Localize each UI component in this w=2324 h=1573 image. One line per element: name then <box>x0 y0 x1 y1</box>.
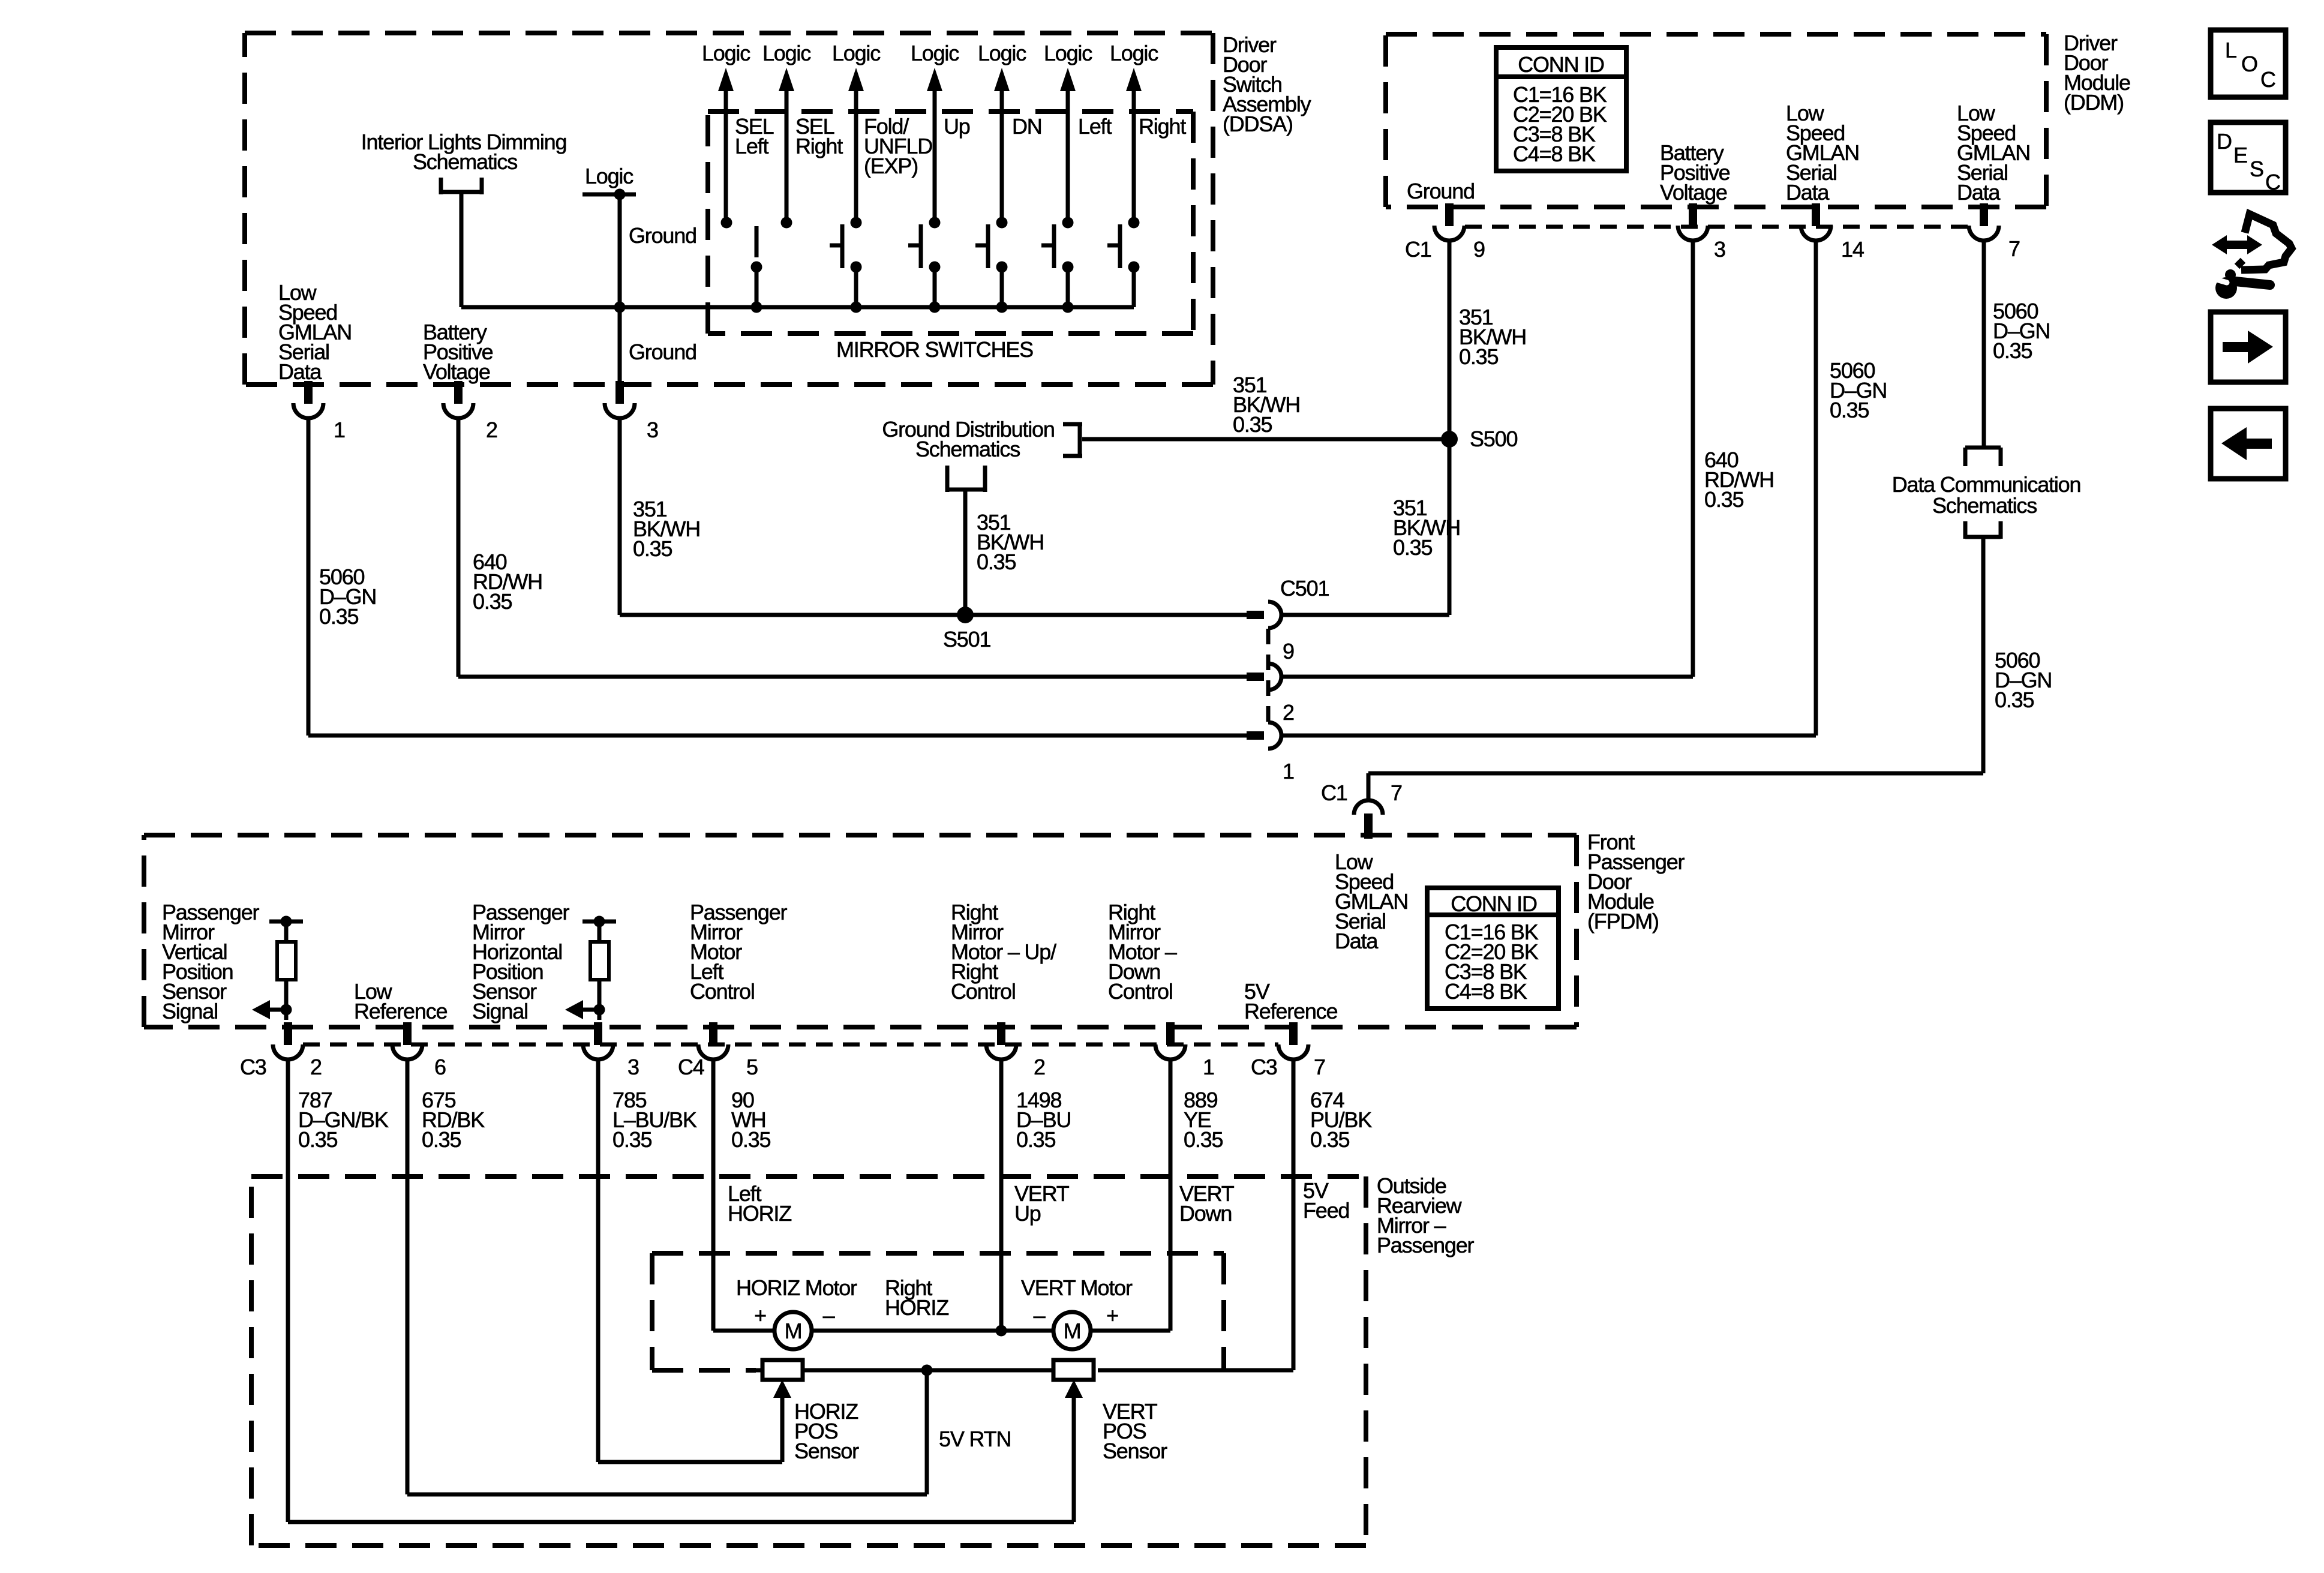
svg-text:Up: Up <box>944 114 970 139</box>
svg-text:6: 6 <box>434 1055 446 1079</box>
connector FPDM pin C4-1 <box>1155 1022 1185 1059</box>
ground bus wire inside mirror switch box <box>620 305 1134 310</box>
pin number 2 (FPDM) <box>310 1055 322 1079</box>
label: 5V Reference <box>1244 979 1337 1023</box>
module box: Driver Door Module (DDM) <box>1386 34 2046 207</box>
label: Fold/UNFLD (EXP) <box>864 114 932 178</box>
wire: 5060 D-GN from DDSA pin 1 to C501 pin 1 <box>308 417 1247 736</box>
svg-text:(DDSA): (DDSA) <box>1223 112 1293 136</box>
svg-text:14: 14 <box>1841 237 1864 262</box>
wire: position sensor chain <box>752 1368 1058 1373</box>
label: Front Passenger Door Module (FPDM) <box>1587 830 1685 933</box>
wire: DDM pin 7 to data communication bracket <box>1982 239 1986 448</box>
label: Logic 2 <box>762 41 811 65</box>
wire: C501 pin 2 to DDM pin 3 <box>1281 239 1693 677</box>
wire label: 5060 D-GN 0.35 (left) <box>319 565 376 629</box>
svg-text:0.35: 0.35 <box>298 1127 337 1152</box>
wire: C501 pin 9 to S500 riser to DDM pin 9 <box>1281 239 1449 615</box>
connector DDM C1 pin 7 <box>1969 203 1999 241</box>
icon: LOC box <box>2211 30 2286 97</box>
label: Ground Distribution Schematics <box>882 417 1054 461</box>
bus junction dots <box>751 302 1074 313</box>
svg-text:CONN ID: CONN ID <box>1518 52 1604 77</box>
svg-text:Logic: Logic <box>702 41 750 65</box>
wire: horizontal position signal return <box>598 1059 782 1462</box>
wire label: 5060 D-GN 0.35 (DDM pin 7) <box>1993 299 2050 363</box>
wire label: 351 BK/WH 0.35 (DDM pin 9) <box>1459 305 1526 369</box>
svg-text:Right: Right <box>795 134 843 158</box>
svg-text:S500: S500 <box>1470 427 1517 451</box>
wire: vertical position signal return <box>288 1059 1074 1522</box>
bracket: Ground Distribution Schematics (right) <box>1063 422 1082 458</box>
label: Data Communication Schematics <box>1892 472 2081 518</box>
wire: VERT Down control <box>1091 1059 1170 1331</box>
wire: ground vertical inside DDSA <box>618 194 622 385</box>
connector FPDM C1 pin 7 (top) <box>1354 800 1383 839</box>
label: MIRROR SWITCHES <box>836 337 1033 362</box>
wire label: 889 YE 0.35 <box>1184 1088 1223 1152</box>
node: junction vert up at motor bus <box>996 1325 1007 1337</box>
label: HORIZ Motor <box>736 1275 857 1300</box>
svg-text:Schematics: Schematics <box>413 149 517 174</box>
label: Right HORIZ <box>885 1275 948 1320</box>
svg-text:S: S <box>2250 157 2263 181</box>
wire label: 674 PU/BK 0.35 <box>1310 1088 1372 1152</box>
label: Outside Rearview Mirror - Passenger <box>1377 1173 1475 1257</box>
pin number 14 (DDM) <box>1841 237 1864 262</box>
svg-text:–: – <box>1034 1303 1046 1328</box>
label: Logic 4 <box>911 41 959 65</box>
label: Interior Lights Dimming Schematics <box>361 130 567 174</box>
label: VERT Up <box>1014 1181 1070 1226</box>
pin number 2 (C501) <box>1283 700 1294 725</box>
label: Passenger Mirror Vertical Position Sensor Signal <box>162 900 260 1023</box>
svg-text:Down: Down <box>1179 1201 1232 1226</box>
label: Ground (lower) <box>629 340 696 364</box>
connector C501 pin 9 <box>1247 602 1281 628</box>
svg-text:Control: Control <box>1108 979 1173 1004</box>
svg-text:0.35: 0.35 <box>422 1127 461 1152</box>
svg-text:M: M <box>785 1319 802 1343</box>
module box: MIRROR SWITCHES (dashed) <box>708 112 1193 334</box>
svg-text:Data: Data <box>1786 180 1830 205</box>
pin number 2 <box>486 418 497 442</box>
svg-text:2: 2 <box>1034 1055 1045 1079</box>
pin number 9 (C501) <box>1283 639 1294 664</box>
wire: mirror motor left control <box>713 1059 774 1331</box>
label: Low Speed GMLAN Serial Data (DDM pin 14) <box>1786 101 1859 205</box>
bracket: ground distribution lower <box>947 466 985 492</box>
svg-text:Reference: Reference <box>1244 999 1337 1023</box>
svg-text:Reference: Reference <box>354 999 447 1023</box>
connector DDM C1 pin 3 <box>1678 203 1708 241</box>
svg-text:Signal: Signal <box>472 999 528 1023</box>
wire label: 351 BK/WH 0.35 (below S500) <box>1393 496 1460 560</box>
connector C501 pin 2 <box>1247 664 1281 690</box>
svg-text:0.35: 0.35 <box>1184 1127 1223 1152</box>
splice S500 <box>1441 431 1458 448</box>
pin number 9 (DDM) <box>1473 237 1485 262</box>
connector DDM C1 pin 9 <box>1434 203 1464 241</box>
bracket: data communication bottom <box>1965 521 2001 539</box>
icon: harness repair wrench with double arrow <box>2212 214 2292 299</box>
wire: C501 pin 1 to DDM pin 14 <box>1281 239 1816 736</box>
switch SEL Left/Right (selector) top contacts <box>721 217 792 229</box>
svg-text:M: M <box>1064 1319 1081 1343</box>
svg-text:7: 7 <box>2008 236 2020 261</box>
svg-text:Control: Control <box>951 979 1016 1004</box>
label: C3 (FPDM right) <box>1251 1055 1277 1079</box>
table: CONN ID (FPDM) <box>1427 888 1559 1008</box>
svg-text:O: O <box>2241 52 2257 76</box>
wire: data communication to FPDM C1 pin 7 <box>1368 539 1983 801</box>
svg-text:HORIZ Motor: HORIZ Motor <box>736 1275 857 1300</box>
wire label: 5060 D-GN 0.35 (DDM pin 14) <box>1830 358 1887 422</box>
connector FPDM pin C4-2 <box>986 1022 1016 1059</box>
label: DN <box>1012 114 1042 139</box>
svg-text:Sensor: Sensor <box>1103 1439 1167 1463</box>
svg-text:2: 2 <box>486 418 497 442</box>
svg-text:C3: C3 <box>1251 1055 1277 1079</box>
pin number 6 (FPDM) <box>434 1055 446 1079</box>
label: Low Speed GMLAN Serial Data (FPDM) <box>1335 849 1408 953</box>
svg-text:Right: Right <box>1139 114 1186 139</box>
wire: ground distribution to S501 <box>963 490 968 615</box>
wire: ground distribution to S500 <box>1082 437 1449 442</box>
label: Logic (tap) <box>585 164 633 188</box>
svg-text:Control: Control <box>690 979 755 1004</box>
logic output arrow 3 with wire <box>848 68 864 223</box>
svg-text:Logic: Logic <box>911 41 959 65</box>
svg-text:7: 7 <box>1314 1055 1325 1079</box>
svg-text:HORIZ: HORIZ <box>885 1295 948 1320</box>
svg-text:+: + <box>1106 1303 1118 1328</box>
svg-text:S501: S501 <box>943 627 990 652</box>
arrow: horizontal position sensor signal <box>565 1000 605 1019</box>
wire label: 90 WH 0.35 <box>731 1088 770 1152</box>
svg-text:1: 1 <box>334 418 345 442</box>
svg-text:0.35: 0.35 <box>1016 1127 1055 1152</box>
svg-text:C1: C1 <box>1321 781 1347 805</box>
logic output arrow 1 with wire <box>718 68 734 223</box>
connector C501 dashed body line <box>1266 629 1271 722</box>
logic output arrow 4 with wire <box>927 68 942 223</box>
svg-text:0.35: 0.35 <box>1393 535 1432 560</box>
pin number 3 (FPDM) <box>627 1055 639 1079</box>
label: Left HORIZ <box>728 1181 791 1226</box>
label: Ground (upper) <box>629 223 696 248</box>
node: 5V RTN junction <box>921 1365 933 1376</box>
connector DDSA pin 2 <box>443 381 473 418</box>
svg-text:Left: Left <box>1078 114 1112 139</box>
logic output arrow 5 with wire <box>994 68 1010 223</box>
svg-text:HORIZ: HORIZ <box>728 1201 791 1226</box>
svg-text:Data: Data <box>278 359 322 384</box>
svg-text:Up: Up <box>1014 1201 1041 1226</box>
connector face dotted line (DDM C1) <box>1465 225 1968 229</box>
svg-text:DN: DN <box>1012 114 1042 139</box>
wire label: 351 BK/WH 0.35 (above S501) <box>977 510 1044 574</box>
svg-text:5: 5 <box>746 1055 758 1079</box>
label: Low Speed GMLAN Serial Data (DDSA pin 1) <box>278 280 352 384</box>
label: Driver Door Module (DDM) <box>2064 31 2130 115</box>
connector DDM C1 pin 14 <box>1801 203 1831 241</box>
svg-text:MIRROR SWITCHES: MIRROR SWITCHES <box>836 337 1033 362</box>
logic tap terminal <box>582 189 636 200</box>
logic output arrow 6 with wire <box>1060 68 1076 223</box>
bracket: Interior Lights Dimming Schematics <box>441 178 482 194</box>
svg-text:0.35: 0.35 <box>1995 688 2034 712</box>
label: Driver Door Switch Assembly (DDSA) <box>1223 32 1311 136</box>
svg-text:Logic: Logic <box>832 41 881 65</box>
label: Logic 6 <box>1044 41 1092 65</box>
module box: Driver Door Switch Assembly (DDSA) <box>245 33 1213 385</box>
pin number 7 (FPDM top) <box>1391 781 1402 805</box>
pin number 7 (DDM) <box>2008 236 2020 261</box>
svg-text:E: E <box>2233 143 2247 167</box>
svg-text:0.35: 0.35 <box>1310 1127 1349 1152</box>
svg-text:Ground: Ground <box>629 223 696 248</box>
wire: 5V feed <box>1098 1059 1293 1370</box>
label: SEL Left <box>735 114 774 158</box>
svg-text:C: C <box>2265 170 2280 194</box>
motor: VERT Motor M <box>1053 1312 1091 1349</box>
label: Low Reference <box>354 979 447 1023</box>
wire: motor bus between motors <box>812 1329 1053 1333</box>
svg-text:9: 9 <box>1283 639 1294 664</box>
pin number 7 (FPDM C3) <box>1314 1055 1325 1079</box>
label: Low Speed GMLAN Serial Data (DDM pin 7) <box>1957 101 2030 205</box>
svg-text:0.35: 0.35 <box>1459 344 1498 369</box>
label: C3 (FPDM left) <box>240 1055 266 1079</box>
label: Passenger Mirror Motor Left Control <box>690 900 788 1004</box>
svg-text:2: 2 <box>310 1055 322 1079</box>
arrow: vertical position sensor signal <box>252 1000 292 1019</box>
connector DDSA pin 3 <box>605 381 635 418</box>
svg-text:C4: C4 <box>678 1055 704 1079</box>
svg-text:Passenger: Passenger <box>1377 1233 1475 1257</box>
switch SEL common blade <box>751 226 762 307</box>
connector C501 pin 1 <box>1247 722 1281 749</box>
svg-text:2: 2 <box>1283 700 1294 725</box>
svg-text:0.35: 0.35 <box>1993 338 2032 363</box>
label: Logic 5 <box>978 41 1026 65</box>
label: + (vert motor) <box>1106 1303 1118 1328</box>
icon: left arrow box <box>2211 409 2286 479</box>
svg-text:0.35: 0.35 <box>612 1127 651 1152</box>
label: - (horiz motor) <box>823 1303 835 1328</box>
label: Left <box>1078 114 1112 139</box>
wire: 640 RD/WH from DDSA pin 2 to C501 pin 2 <box>458 417 1247 677</box>
wire: interior lights dimming to ground bus <box>461 192 620 307</box>
svg-text:(FPDM): (FPDM) <box>1587 909 1659 933</box>
pin number 3 (DDM) <box>1714 237 1725 262</box>
label: Up <box>944 114 970 139</box>
svg-text:3: 3 <box>627 1055 639 1079</box>
wire: low reference / 5V RTN <box>407 1059 927 1494</box>
svg-text:CONN ID: CONN ID <box>1451 891 1537 916</box>
svg-text:1: 1 <box>1283 759 1294 784</box>
svg-text:C3: C3 <box>240 1055 266 1079</box>
switch Left <box>1041 217 1074 308</box>
svg-text:–: – <box>823 1303 835 1328</box>
svg-text:9: 9 <box>1473 237 1485 262</box>
wire label: 675 RD/BK 0.35 <box>422 1088 485 1152</box>
wire label: 1498 D-BU 0.35 <box>1016 1088 1071 1152</box>
switch DN <box>975 217 1008 308</box>
connector face dotted line (FPDM bottom) <box>303 1043 1278 1047</box>
svg-text:(EXP): (EXP) <box>864 154 918 178</box>
wire label: 787 D-GN/BK 0.35 <box>298 1088 389 1152</box>
wire label: 785 L-BU/BK 0.35 <box>612 1088 697 1152</box>
label: Right Mirror Motor Down Control <box>1108 900 1177 1004</box>
svg-text:1: 1 <box>1203 1055 1214 1079</box>
label: VERT Motor <box>1021 1275 1133 1300</box>
table: CONN ID (DDM) <box>1496 47 1626 171</box>
svg-text:0.35: 0.35 <box>1830 398 1869 422</box>
icon: right arrow box <box>2211 312 2286 382</box>
wire: sensor signal to FPDM pin C3-2 <box>284 1010 289 1020</box>
pin number 1 (C501) <box>1283 759 1294 784</box>
switch Fold/UNFLD (EXP) <box>830 217 862 308</box>
logic output arrow 2 with wire <box>779 68 794 223</box>
splice S501 <box>957 607 974 623</box>
svg-text:0.35: 0.35 <box>633 536 672 561</box>
wire label: 640 RD/WH 0.35 (DDM pin 3) <box>1704 448 1774 512</box>
module box: Outside Rearview Mirror - Passenger <box>251 1176 1366 1545</box>
label: C4 (FPDM) <box>678 1055 704 1079</box>
wire: VERT Up control <box>999 1059 1004 1331</box>
svg-text:Sensor: Sensor <box>794 1439 859 1463</box>
svg-text:7: 7 <box>1391 781 1402 805</box>
label: Right Mirror Motor Up/Right Control <box>951 900 1056 1004</box>
svg-text:Ground: Ground <box>629 340 696 364</box>
svg-text:Schematics: Schematics <box>1932 493 2037 518</box>
sensor: vertical position sensor (FPDM) <box>269 916 303 1010</box>
connector FPDM pin C3-7 <box>1278 1022 1308 1059</box>
pin number 2 (FPDM C4) <box>1034 1055 1045 1079</box>
svg-text:Logic: Logic <box>1044 41 1092 65</box>
svg-text:Voltage: Voltage <box>423 359 490 384</box>
arrow: HORIZ POS sensor wiper <box>773 1380 791 1462</box>
label: Ground (DDM) <box>1407 179 1475 203</box>
svg-text:Logic: Logic <box>585 164 633 188</box>
motor: HORIZ Motor M <box>774 1312 812 1349</box>
svg-text:3: 3 <box>1714 237 1725 262</box>
icon: DESC box <box>2211 122 2286 194</box>
wire label: 351 BK/WH 0.35 (left) <box>633 497 700 561</box>
svg-text:0.35: 0.35 <box>1704 487 1743 512</box>
svg-text:C4=8 BK: C4=8 BK <box>1445 979 1527 1004</box>
label: VERT Down <box>1179 1181 1235 1226</box>
module box: Front Passenger Door Module (FPDM) <box>144 835 1577 1027</box>
svg-text:3: 3 <box>647 418 658 442</box>
svg-text:Ground: Ground <box>1407 179 1475 203</box>
svg-text:Left: Left <box>735 134 768 158</box>
label: + (horiz motor) <box>754 1303 766 1328</box>
logic output arrow 7 with wire <box>1126 68 1142 223</box>
label: C501 <box>1280 576 1329 601</box>
pin number 1 <box>334 418 345 442</box>
pin number 1 (FPDM C4) <box>1203 1055 1214 1079</box>
svg-text:Data: Data <box>1335 929 1379 953</box>
svg-text:0.35: 0.35 <box>473 589 512 614</box>
svg-text:0.35: 0.35 <box>1233 412 1272 437</box>
svg-text:Voltage: Voltage <box>1660 180 1727 205</box>
wire: 351 BK/WH from DDSA pin 3 to C501 pin 9 <box>620 417 1247 615</box>
label: HORIZ POS Sensor <box>794 1399 859 1463</box>
svg-text:C4=8 BK: C4=8 BK <box>1513 142 1596 166</box>
svg-text:(DDM): (DDM) <box>2064 90 2124 115</box>
connector DDSA pin 1 <box>293 381 323 418</box>
arrow: VERT POS sensor wiper <box>1065 1380 1083 1522</box>
connector FPDM pin C3-3 <box>583 1022 613 1059</box>
switch Right <box>1107 217 1140 308</box>
svg-text:Logic: Logic <box>762 41 811 65</box>
wire label: 5060 D-GN 0.35 (to FPDM) <box>1995 648 2052 712</box>
pin number 3 <box>647 418 658 442</box>
connector FPDM pin C4-5 <box>698 1022 728 1059</box>
module box: mirror motor assembly (inner dashed) <box>652 1253 1224 1370</box>
label: 5V Feed <box>1303 1178 1349 1223</box>
label: Battery Positive Voltage (DDM) <box>1660 140 1730 205</box>
svg-text:Data: Data <box>1957 180 2001 205</box>
label: - (vert motor) <box>1034 1303 1046 1328</box>
label: Passenger Mirror Horizontal Position Sensor Signal <box>472 900 570 1023</box>
label: SEL Right <box>795 114 843 158</box>
label: C1 (FPDM) <box>1321 781 1347 805</box>
switch Up <box>908 217 941 308</box>
label: Right <box>1139 114 1186 139</box>
svg-text:L: L <box>2225 38 2236 62</box>
resistor: VERT POS sensor <box>1053 1360 1094 1380</box>
connector FPDM pin C3-2 <box>273 1022 303 1059</box>
wire: sensor signal to FPDM pin C3-3 <box>597 1010 602 1020</box>
label: Battery Positive Voltage (DDSA pin 2) <box>423 320 493 384</box>
bracket: data communication top <box>1965 448 2001 466</box>
resistor: HORIZ POS sensor <box>762 1360 803 1380</box>
label: C1 (DDM) <box>1405 237 1431 262</box>
svg-text:C1: C1 <box>1405 237 1431 262</box>
pin number 5 (FPDM) <box>746 1055 758 1079</box>
svg-text:Logic: Logic <box>978 41 1026 65</box>
wire label: 351 BK/WH 0.35 (left of S500) <box>1233 373 1300 437</box>
label: 5V RTN <box>939 1427 1011 1451</box>
svg-text:0.35: 0.35 <box>977 550 1016 574</box>
wire label: 640 RD/WH 0.35 (left) <box>473 550 542 614</box>
label: Logic 1 <box>702 41 750 65</box>
svg-text:Feed: Feed <box>1303 1198 1349 1223</box>
svg-text:5V RTN: 5V RTN <box>939 1427 1011 1451</box>
svg-text:VERT Motor: VERT Motor <box>1021 1275 1133 1300</box>
svg-text:D: D <box>2217 129 2232 154</box>
label: Logic 7 <box>1110 41 1158 65</box>
svg-text:+: + <box>754 1303 766 1328</box>
svg-text:C501: C501 <box>1280 576 1329 601</box>
svg-text:0.35: 0.35 <box>319 604 358 629</box>
label: S501 <box>943 627 990 652</box>
svg-text:Schematics: Schematics <box>915 437 1020 461</box>
node: bus junction at ground wire <box>614 302 626 313</box>
label: VERT POS Sensor <box>1103 1399 1167 1463</box>
sensor: horizontal position sensor (FPDM) <box>582 916 616 1010</box>
svg-text:C: C <box>2260 67 2275 92</box>
label: S500 <box>1470 427 1517 451</box>
svg-text:Logic: Logic <box>1110 41 1158 65</box>
label: Logic 3 <box>832 41 881 65</box>
svg-text:Signal: Signal <box>162 999 218 1023</box>
connector FPDM pin C3-6 <box>392 1022 422 1059</box>
